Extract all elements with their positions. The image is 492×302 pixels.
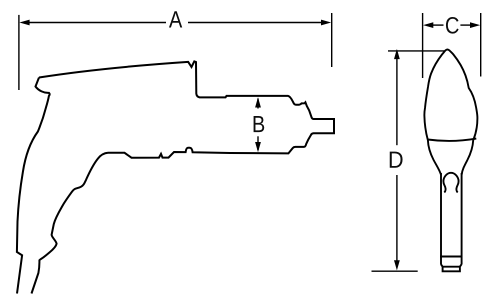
dimension D top extension line: [388, 50, 444, 52]
dimension B top arrowhead: [255, 97, 261, 107]
dimension D line bottom segment: [396, 175, 398, 263]
front view handle shaft left edge: [440, 173, 442, 265]
dimension A right extension line: [331, 13, 333, 67]
dimension A left extension line: [18, 15, 20, 90]
drill handle front / trigger edge: [32, 153, 109, 294]
dimension D bottom arrowhead: [394, 260, 400, 270]
dimension D bottom extension line: [372, 270, 418, 272]
label B: [254, 116, 265, 132]
label A: [169, 11, 182, 27]
dimension D line top segment: [396, 57, 398, 145]
front view egg body outline: [424, 49, 477, 174]
dimension A line left segment: [26, 22, 166, 24]
dimension A right arrowhead: [321, 20, 331, 26]
dimension A left arrowhead: [19, 20, 29, 26]
front view handle band line: [440, 256, 463, 258]
dimension B line bottom segment: [257, 136, 259, 150]
dimension D top arrowhead: [394, 49, 400, 59]
front view body separation line: [428, 139, 477, 141]
dimension C line left segment: [431, 24, 444, 26]
label C: [446, 17, 459, 34]
front view trigger arch detail: [443, 173, 458, 193]
dimension C right extension line: [480, 13, 482, 77]
dimension C left extension line: [422, 13, 424, 78]
front view handle tip: [441, 264, 462, 271]
drill cord left edge and handle back edge: [17, 78, 50, 294]
dimension B bottom arrowhead: [255, 142, 261, 152]
label D: [390, 152, 403, 168]
dimension A line right segment: [188, 22, 325, 24]
dimension C right arrowhead: [470, 22, 480, 28]
dimension B line top segment with arrowhead: [257, 99, 259, 109]
front view handle shaft right edge: [461, 173, 463, 265]
drill side view outline: [39, 61, 334, 157]
dimension C line right segment: [460, 24, 472, 26]
dimension C left arrowhead: [423, 22, 433, 28]
